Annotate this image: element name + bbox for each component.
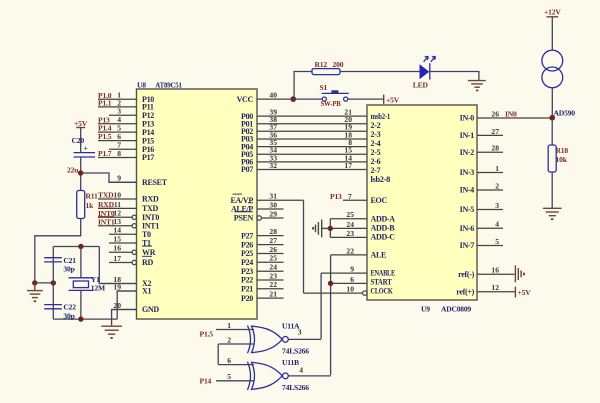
U8 pin name P17 — [142, 153, 154, 162]
U8 pin 35 stub/wire — [257, 146, 367, 148]
resistor R11 — [77, 191, 85, 219]
U9 pin 8 number — [348, 138, 352, 147]
wire crystal bottom rail — [53, 318, 117, 320]
svg-text:P1.5: P1.5 — [98, 132, 112, 141]
svg-text:ref(-): ref(-) — [458, 270, 474, 279]
svg-text:22u: 22u — [67, 166, 79, 175]
svg-text:lsb2-8: lsb2-8 — [371, 175, 391, 184]
wire ADD-A/B/C vertical tie — [329, 219, 331, 238]
svg-text:+5V: +5V — [386, 96, 400, 105]
node P1.1 — [98, 99, 112, 108]
power +5V at switch — [384, 95, 400, 105]
diode LED D1 — [420, 63, 430, 79]
U8 pin 7 number — [117, 141, 121, 150]
capacitor C21 — [44, 258, 62, 262]
U8 pin 10 number — [113, 190, 121, 199]
svg-text:7: 7 — [348, 192, 352, 201]
U8 pin name P16 — [142, 145, 154, 154]
U8 pin 9 stub — [109, 181, 137, 183]
U8 pin 6 number — [117, 132, 121, 141]
U9 pin 17 number — [344, 161, 352, 170]
U8 pin 2 stub — [98, 106, 137, 108]
svg-text:P22: P22 — [241, 276, 253, 285]
U8 pin 5 stub — [98, 131, 137, 133]
svg-text:P14: P14 — [200, 377, 212, 386]
svg-text:26: 26 — [491, 109, 499, 118]
U9 pin name 2-5 — [371, 148, 381, 157]
U8 pin 18 stub — [99, 283, 136, 285]
label U11A — [282, 322, 300, 331]
U8 pin 12 number — [113, 209, 121, 218]
ground symbol below U8 — [101, 326, 122, 339]
U9 pin name IN-7 — [460, 241, 475, 250]
svg-text:28: 28 — [491, 144, 499, 153]
U8 pin 23 number — [269, 271, 277, 280]
svg-text:25: 25 — [269, 254, 277, 263]
svg-text:PSEN: PSEN — [234, 214, 254, 223]
U8 pin 7 stub — [109, 148, 137, 150]
wire ENABLE vertical to U11A output — [320, 273, 322, 339]
wire X1 branch — [117, 291, 136, 319]
wire X2 branch — [99, 247, 136, 284]
U8 pin 34 number — [269, 146, 277, 155]
U9 pin name ALE — [371, 251, 387, 260]
svg-text:R11: R11 — [86, 192, 98, 201]
U9 pin 18 number — [344, 130, 352, 139]
svg-text:12: 12 — [491, 283, 499, 292]
U9 pin 12 stub — [477, 291, 515, 293]
U8 pin name RD — [142, 256, 153, 267]
node P14 — [200, 377, 212, 386]
svg-text:17: 17 — [113, 254, 121, 263]
wire crystal top rail — [53, 246, 99, 248]
U8 pin 9 number — [117, 174, 121, 183]
svg-text:IN-2: IN-2 — [460, 148, 475, 157]
U11B pin 5 number — [227, 372, 231, 381]
U9 pin 16 number — [491, 266, 499, 275]
U9 pin 22 number — [346, 246, 354, 255]
U8 pin 34 stub/wire — [257, 153, 367, 155]
svg-text:4: 4 — [299, 365, 303, 374]
U9 pin name IN-5 — [460, 205, 475, 214]
ground symbol left — [27, 283, 43, 302]
U9 pin name EOC — [371, 196, 388, 205]
svg-text:P24: P24 — [241, 258, 253, 267]
transistor AD590 current source circles — [542, 50, 563, 88]
wire switch to +5V — [348, 98, 384, 100]
U8 pin name P22 — [241, 276, 253, 285]
U8 pin 28 number — [269, 227, 277, 236]
label U9 ADC0809 title — [421, 305, 471, 314]
svg-text:10: 10 — [113, 190, 121, 199]
U9 pin name 2-6 — [371, 157, 381, 166]
U8 pin 26 stub/wire — [257, 253, 284, 255]
label R12 200 — [315, 60, 344, 69]
U8 pin 14 number — [113, 226, 121, 235]
U8 pin 20 stub — [112, 309, 137, 311]
U8 pin name P03 — [241, 135, 253, 144]
svg-text:P20: P20 — [241, 294, 253, 303]
U8 pin 16 number — [113, 244, 121, 253]
power +5V at ref(+) — [515, 287, 531, 298]
U8 pin 5 number — [117, 124, 121, 133]
svg-text:AT89C51: AT89C51 — [155, 81, 182, 90]
svg-text:AD590: AD590 — [554, 108, 576, 117]
label 74LS266 lower — [282, 383, 309, 392]
U9 pin name 2-4 — [371, 139, 381, 148]
ground symbol below R18 — [543, 208, 562, 220]
svg-text:10: 10 — [346, 285, 354, 294]
U9 pin name 2-2 — [371, 121, 381, 130]
U9 pin 16 stub — [477, 273, 515, 275]
U8 pin 30 stub/wire — [257, 208, 284, 210]
svg-text:U8: U8 — [137, 81, 146, 90]
svg-text:30p: 30p — [63, 265, 74, 274]
svg-text:C22: C22 — [63, 303, 76, 312]
wire U11A output to ENABLE — [288, 338, 321, 340]
wire ALE/START vertical to U11B output — [330, 255, 332, 375]
svg-text:P27: P27 — [241, 231, 253, 240]
svg-text:U9: U9 — [421, 305, 430, 314]
svg-text:22: 22 — [346, 246, 354, 255]
wire +12V to AD590 — [551, 17, 553, 50]
U8 pin 13 stub — [98, 224, 137, 228]
svg-text:200: 200 — [333, 60, 344, 69]
node INT1 — [98, 217, 115, 227]
wire junction to R18 — [551, 118, 553, 145]
wire ground to C21/C22 branch — [35, 282, 54, 284]
U8 pin 1 stub — [98, 98, 137, 100]
U9 pin 23 number — [346, 229, 354, 238]
U8 pin name P26 — [241, 240, 253, 249]
junction START — [328, 281, 333, 286]
svg-text:+5V: +5V — [74, 119, 88, 128]
resistor R18 — [548, 145, 556, 172]
U9 pin 5 stub — [477, 245, 503, 247]
svg-text:SW-PB: SW-PB — [321, 99, 341, 108]
svg-text:2-5: 2-5 — [371, 148, 381, 157]
svg-text:4: 4 — [495, 220, 499, 229]
U9 pin 1 stub — [477, 172, 503, 174]
svg-text:17: 17 — [344, 161, 352, 170]
U9 pin 14 number — [344, 153, 352, 162]
svg-text:C20: C20 — [72, 136, 85, 145]
U8 pin 37 number — [269, 123, 277, 132]
svg-text:P25: P25 — [241, 249, 253, 258]
junction ADD-B — [328, 226, 333, 231]
U9 pin 26 stub — [477, 117, 552, 119]
svg-text:P17: P17 — [142, 153, 154, 162]
U8 pin name P24 — [241, 258, 253, 267]
node IN0 label — [505, 109, 517, 118]
svg-text:CLOCK: CLOCK — [371, 287, 394, 296]
U8 pin 27 number — [269, 236, 277, 245]
U9 pin name 2-3 — [371, 130, 381, 139]
wire U11A input pin 1 — [216, 329, 254, 331]
U9 pin name lsb2-8 — [371, 175, 391, 184]
svg-text:P1.5: P1.5 — [200, 330, 214, 339]
power +12V — [544, 8, 561, 17]
svg-text:25: 25 — [346, 210, 354, 219]
svg-text:1: 1 — [495, 164, 499, 173]
svg-text:2-2: 2-2 — [371, 121, 381, 130]
wire EA/VP to CLOCK vertical — [303, 200, 305, 293]
U11B pin 6 number — [227, 356, 231, 365]
U9 pin 12 number — [491, 283, 499, 292]
svg-text:24: 24 — [346, 220, 354, 229]
U9 pin name IN-4 — [460, 186, 475, 195]
capacitor C20 — [74, 144, 96, 158]
svg-text:U11B: U11B — [282, 358, 299, 367]
U9 pin name IN-2 — [460, 148, 475, 157]
U11A pin 1 number — [227, 321, 231, 330]
svg-text:ALE: ALE — [371, 251, 387, 260]
node P13 label on EOC — [330, 192, 352, 201]
node INT0 — [98, 208, 115, 218]
svg-text:S1: S1 — [320, 83, 328, 92]
svg-text:P21: P21 — [241, 284, 253, 293]
label SW-PB — [321, 99, 341, 108]
U8 pin 38 stub/wire — [257, 123, 367, 125]
svg-text:P26: P26 — [241, 240, 253, 249]
wire ADD-A — [330, 218, 367, 220]
U8 pin name P12 — [142, 111, 154, 120]
svg-text:X1: X1 — [142, 287, 151, 296]
svg-text:6: 6 — [350, 275, 354, 284]
U8 pin 17 number — [113, 254, 121, 263]
U11A pin 3 number — [298, 327, 302, 336]
svg-text:11: 11 — [114, 200, 121, 209]
svg-text:ADD-C: ADD-C — [371, 233, 396, 242]
U9 pin name ADD-C — [371, 233, 396, 242]
wire R11 to ground corner — [35, 219, 81, 283]
U8 pin 24 stub/wire — [257, 270, 284, 272]
svg-text:IN-3: IN-3 — [460, 168, 475, 177]
svg-text:RXD: RXD — [142, 195, 159, 204]
U8 pin 30 number — [269, 200, 277, 209]
svg-text:P23: P23 — [241, 267, 253, 276]
U8 pin name P23 — [241, 267, 253, 276]
svg-text:ref(+): ref(+) — [456, 288, 474, 297]
svg-text:74LS266: 74LS266 — [282, 383, 309, 392]
svg-text:30: 30 — [269, 200, 277, 209]
U8 pin 22 number — [269, 280, 277, 289]
wire GND pin to ground — [112, 310, 137, 326]
label LED — [413, 80, 429, 89]
U8 pin 4 number — [117, 115, 121, 124]
svg-text:9: 9 — [350, 265, 354, 274]
node P1.7 — [98, 149, 112, 158]
svg-text:R12: R12 — [315, 60, 328, 69]
U9 pin 10 number — [346, 285, 354, 294]
op-amp U8 AT89C51 microcontroller body — [137, 89, 258, 319]
svg-text:5: 5 — [227, 372, 231, 381]
svg-text:16: 16 — [491, 266, 499, 275]
crystal Y1 — [69, 278, 94, 291]
U11A output circle pin 3 — [283, 337, 289, 343]
op-amp U9 ADC0809 body — [367, 105, 477, 300]
wire R18 to ground — [551, 172, 553, 208]
U8 pin 39 number — [269, 108, 277, 117]
gate U11A 74LS266 XOR — [248, 326, 283, 354]
U8 pin 2 number — [117, 98, 121, 107]
U9 pin name CLOCK — [371, 287, 394, 296]
svg-text:P1.7: P1.7 — [98, 149, 112, 158]
svg-text:IN-7: IN-7 — [460, 241, 475, 250]
junction crystal bottom — [78, 316, 83, 321]
ground sideways at ADD pins — [312, 220, 330, 238]
U8 pin 15 stub — [109, 242, 137, 244]
node RXD — [98, 200, 115, 209]
U9 pin 26 number — [491, 109, 499, 118]
svg-text:T0: T0 — [142, 230, 151, 239]
U9 pin 25 number — [346, 210, 354, 219]
svg-text:14: 14 — [113, 226, 121, 235]
wire U11B input pin 6 — [218, 364, 254, 366]
ground symbol after LED — [468, 81, 486, 92]
node P1.5 — [98, 132, 112, 141]
U8 pin 3 stub — [109, 114, 137, 116]
U9 pin 21 number — [344, 108, 352, 117]
U8 pin 29 number — [269, 209, 277, 218]
svg-text:GND: GND — [142, 305, 159, 314]
svg-text:EA/VP: EA/VP — [230, 196, 253, 205]
U8 pin 23 stub/wire — [257, 279, 284, 281]
wire ALE from U9 — [331, 254, 367, 256]
svg-text:ADD-A: ADD-A — [371, 215, 396, 224]
U8 pin 17 stub — [109, 260, 137, 264]
svg-text:31: 31 — [269, 192, 277, 201]
svg-text:IN-6: IN-6 — [460, 224, 475, 233]
U9 pin 9 number — [350, 265, 354, 274]
U8 pin name GND — [142, 305, 159, 314]
LED arrows — [424, 56, 436, 61]
U8 pin name INT0 — [142, 213, 159, 222]
U8 pin 39 stub/wire — [257, 115, 367, 117]
label C21 30p — [63, 256, 76, 274]
U8 pin 8 number — [117, 149, 121, 158]
U8 pin 12 stub — [98, 215, 137, 219]
U9 pin name ref(-) — [458, 270, 474, 279]
U8 pin 25 stub/wire — [257, 261, 284, 263]
U8 pin 40 number — [269, 91, 277, 100]
node P13 — [98, 115, 110, 124]
svg-text:15: 15 — [113, 234, 121, 243]
U8 pin name P20 — [241, 294, 253, 303]
node TXD — [98, 191, 114, 200]
U9 pin 2 number — [495, 181, 499, 190]
wire R12 to LED — [340, 71, 420, 73]
U8 pin name RESET — [142, 178, 168, 187]
U8 pin name P11 — [142, 103, 154, 112]
svg-text:16: 16 — [113, 244, 121, 253]
wire U11B output to START/ALE — [288, 375, 330, 377]
svg-text:IN-0: IN-0 — [460, 114, 475, 123]
svg-text:27: 27 — [491, 127, 499, 136]
U8 pin 18 number — [113, 275, 121, 284]
U8 pin name P01 — [241, 119, 253, 128]
label 22u — [67, 166, 79, 175]
U9 pin name START — [371, 278, 393, 287]
svg-text:3: 3 — [298, 327, 302, 336]
wire reset node to RESET pin — [81, 173, 137, 182]
label AD590 — [554, 108, 576, 117]
label U8 AT89C51 title — [137, 81, 182, 90]
resistor R12 — [312, 69, 340, 75]
wire crystal to plates — [80, 247, 82, 320]
U9 pin 24 number — [346, 220, 354, 229]
svg-text:+: + — [84, 144, 88, 153]
U8 pin 10 stub — [98, 198, 137, 200]
U8 pin name P13 — [142, 119, 154, 128]
U8 pin 16 stub — [109, 250, 137, 254]
svg-text:21: 21 — [269, 290, 277, 299]
U9 pin name ADD-B — [371, 224, 396, 233]
label Y1 12M — [91, 275, 105, 293]
junction IN0 — [549, 115, 555, 121]
svg-text:1: 1 — [227, 321, 231, 330]
U8 pin 24 number — [269, 263, 277, 272]
capacitor C22 — [44, 305, 62, 309]
svg-text:RXD: RXD — [98, 200, 115, 209]
label 74LS266 upper — [282, 347, 309, 356]
U8 pin 19 stub — [117, 290, 136, 292]
U9 CLOCK pin circle — [363, 291, 367, 295]
label R18 10k — [556, 146, 569, 164]
U8 pin name ALE/P — [231, 203, 253, 214]
wire C21 vertical — [52, 247, 54, 283]
U8 pin 19 number — [113, 282, 121, 291]
U8 pin 29 stub/wire — [257, 216, 284, 220]
U9 pin 3 number — [495, 201, 499, 210]
U9 pin 3 stub — [477, 209, 503, 211]
U9 pin 4 number — [495, 220, 499, 229]
junction reset node — [78, 170, 83, 175]
svg-text:START: START — [371, 278, 393, 287]
U8 pin name INT1 — [142, 222, 159, 231]
U8 pin 26 number — [269, 245, 277, 254]
node P1.0 — [98, 91, 112, 100]
wire ADD-B — [330, 227, 367, 229]
U9 pin name ADD-A — [371, 215, 396, 224]
junction C branch — [51, 280, 56, 285]
wire ENABLE from U9 — [321, 272, 367, 274]
junction VCC pin40 — [291, 96, 297, 102]
U8 pin name P00 — [241, 112, 253, 121]
svg-text:ENABLE: ENABLE — [371, 269, 396, 278]
svg-text:40: 40 — [269, 91, 277, 100]
U8 pin 11 number — [114, 200, 121, 209]
power +5V top-left — [74, 119, 88, 152]
switch S1 — [322, 90, 349, 101]
U8 pin name P10 — [142, 95, 154, 104]
svg-text:29: 29 — [269, 209, 277, 218]
svg-text:2: 2 — [227, 335, 231, 344]
U8 pin name P05 — [241, 150, 253, 159]
svg-text:IN-1: IN-1 — [460, 131, 475, 140]
U9 pin name IN-6 — [460, 224, 475, 233]
svg-text:+5V: +5V — [518, 288, 532, 297]
wire R12 riser — [294, 72, 312, 100]
U9 pin name ENABLE — [371, 269, 396, 278]
svg-text:EOC: EOC — [371, 196, 388, 205]
U9 pin 28 number — [491, 144, 499, 153]
U9 pin 15 number — [344, 146, 352, 155]
U8 pin name RXD — [142, 195, 159, 204]
U9 pin 6 number — [350, 275, 354, 284]
U8 pin name P25 — [241, 249, 253, 258]
U8 pin 15 number — [113, 234, 121, 243]
